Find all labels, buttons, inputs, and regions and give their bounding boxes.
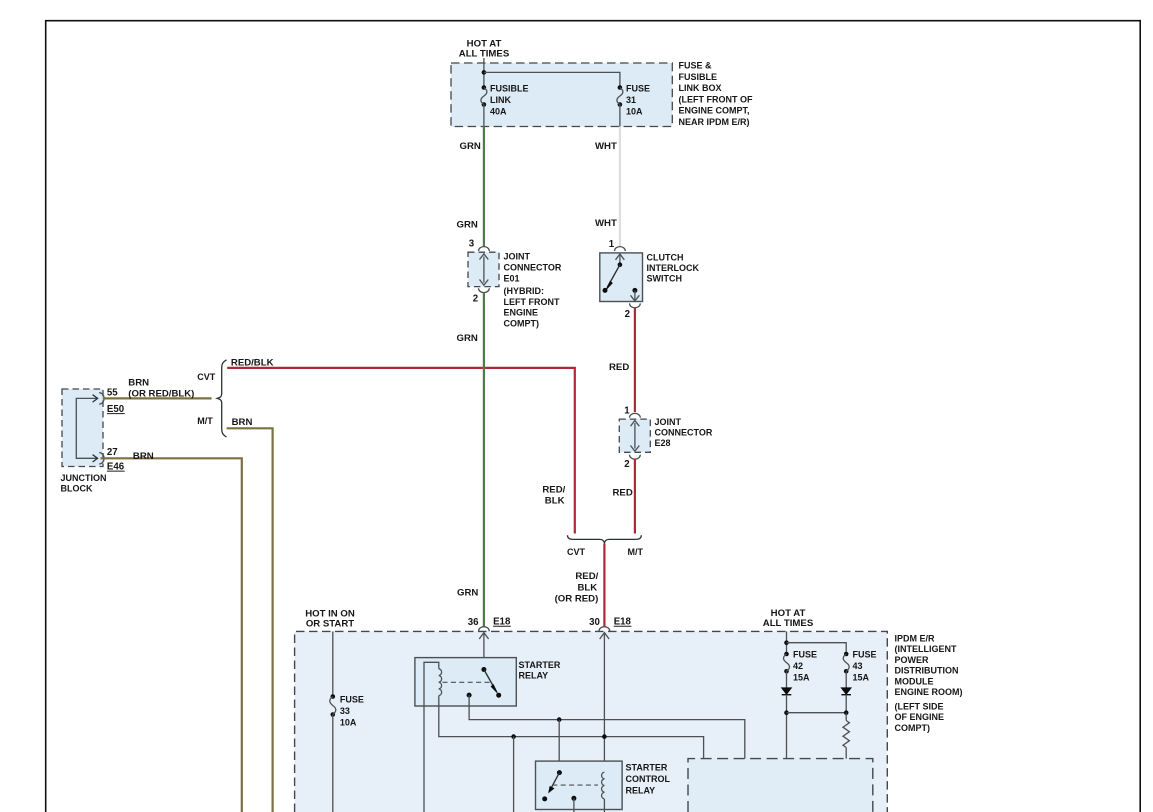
label BRN (OR RED/BLK) — [128, 378, 194, 400]
svg-text:RELAY: RELAY — [519, 670, 549, 680]
wire below fusible link — [483, 105, 485, 127]
svg-text:ENGINE ROOM): ENGINE ROOM) — [895, 687, 963, 697]
svg-text:ALL TIMES: ALL TIMES — [459, 49, 510, 60]
svg-text:CVT: CVT — [567, 547, 586, 557]
svg-text:(LEFT SIDE: (LEFT SIDE — [895, 702, 944, 712]
svg-text:(OR RED): (OR RED) — [555, 594, 599, 605]
wire jog to fuse 31 — [484, 72, 620, 87]
svg-text:JOINT: JOINT — [504, 252, 531, 262]
svg-text:(OR RED/BLK): (OR RED/BLK) — [128, 388, 194, 399]
svg-text:FUSE: FUSE — [626, 84, 650, 94]
svg-text:RED: RED — [609, 362, 629, 373]
wire feed from HOT AT ALL TIMES — [483, 58, 485, 88]
svg-text:DISTRIBUTION: DISTRIBUTION — [895, 666, 959, 676]
fuse 31 10A — [617, 84, 650, 117]
pin 30 connector E18 — [589, 617, 631, 632]
svg-text:FUSE &: FUSE & — [679, 61, 713, 71]
svg-text:CVT: CVT — [197, 372, 216, 382]
svg-text:CLUTCH: CLUTCH — [647, 253, 684, 263]
pin 36 arrow — [479, 633, 488, 670]
label RED/ BLK — [542, 485, 565, 507]
wire diode to junction — [845, 695, 847, 713]
svg-text:JUNCTION: JUNCTION — [61, 473, 107, 483]
svg-text:OF ENGINE: OF ENGINE — [895, 712, 945, 722]
svg-text:43: 43 — [853, 661, 863, 671]
svg-text:FUSE: FUSE — [340, 695, 364, 705]
svg-text:(HYBRID:: (HYBRID: — [504, 286, 545, 296]
svg-text:E01: E01 — [504, 273, 520, 283]
svg-text:33: 33 — [340, 706, 350, 716]
svg-text:GRN: GRN — [457, 588, 478, 599]
starter control relay — [536, 761, 671, 812]
svg-text:2: 2 — [625, 309, 630, 320]
wire HOT AT ALL TIMES right feed — [786, 631, 788, 654]
svg-text:10A: 10A — [340, 718, 357, 728]
svg-text:GRN: GRN — [457, 220, 478, 231]
svg-text:1: 1 — [624, 406, 630, 417]
wire junction to starter control relay — [558, 720, 560, 773]
svg-text:LINK BOX: LINK BOX — [679, 83, 722, 93]
starter relay — [415, 658, 704, 812]
svg-text:31: 31 — [626, 95, 636, 105]
svg-text:42: 42 — [793, 661, 803, 671]
svg-text:36: 36 — [468, 617, 479, 628]
junction dot — [784, 640, 789, 645]
svg-text:RED/: RED/ — [542, 485, 565, 496]
svg-text:40A: 40A — [490, 107, 507, 117]
svg-text:10A: 10A — [626, 107, 643, 117]
svg-text:ENGINE: ENGINE — [504, 308, 539, 318]
svg-text:RED: RED — [613, 488, 633, 499]
svg-text:FUSE: FUSE — [793, 650, 817, 660]
svg-text:BRN: BRN — [133, 451, 154, 462]
node HOT IN ON OR START — [305, 609, 355, 630]
svg-text:1: 1 — [609, 239, 615, 250]
svg-text:27: 27 — [107, 447, 118, 458]
diode (fuse 42 branch) — [782, 688, 792, 695]
wire BRN from pin 27 — [101, 458, 242, 812]
node HOT AT ALL TIMES — [459, 39, 510, 60]
svg-text:RELAY: RELAY — [626, 786, 656, 796]
wire below fuse 31 — [619, 105, 621, 127]
svg-text:WHT: WHT — [595, 141, 617, 152]
wire RED/BLK CVT branch — [227, 368, 575, 534]
svg-text:BRN: BRN — [128, 378, 149, 389]
pin 30 arrow / wire to starter control relay coil — [600, 633, 609, 772]
svg-text:COMPT): COMPT) — [504, 319, 540, 329]
svg-text:GRN: GRN — [457, 333, 478, 344]
node HOT AT ALL TIMES (right) — [763, 608, 814, 629]
svg-text:FUSIBLE: FUSIBLE — [679, 72, 718, 82]
svg-text:15A: 15A — [793, 673, 810, 683]
junction dot — [784, 710, 789, 715]
diode (fuse 43 branch) — [841, 688, 851, 695]
inner module box — [688, 759, 873, 812]
svg-text:STARTER: STARTER — [519, 660, 561, 670]
svg-text:LINK: LINK — [490, 95, 511, 105]
svg-text:BLK: BLK — [545, 496, 565, 507]
junction dot — [844, 710, 849, 715]
svg-text:LEFT FRONT: LEFT FRONT — [504, 297, 560, 307]
svg-text:MODULE: MODULE — [895, 676, 934, 686]
svg-text:FUSE: FUSE — [853, 650, 877, 660]
svg-text:CONNECTOR: CONNECTOR — [504, 263, 562, 273]
junction dot — [557, 717, 562, 722]
svg-text:CONNECTOR: CONNECTOR — [655, 427, 713, 437]
split brace CVT / M-T — [197, 360, 226, 437]
joint connector E28 — [619, 406, 713, 471]
svg-text:(LEFT FRONT OF: (LEFT FRONT OF — [679, 94, 753, 104]
svg-text:ALL TIMES: ALL TIMES — [763, 618, 814, 629]
joint connector E01 — [468, 239, 562, 329]
svg-text:ENGINE COMPT,: ENGINE COMPT, — [679, 106, 750, 116]
IPDM E/R box — [295, 631, 963, 812]
svg-text:2: 2 — [624, 459, 629, 470]
svg-text:SWITCH: SWITCH — [647, 274, 683, 284]
junction block — [61, 388, 125, 494]
svg-text:NEAR IPDM E/R): NEAR IPDM E/R) — [679, 117, 750, 127]
svg-text:BRN: BRN — [232, 417, 253, 428]
svg-text:JOINT: JOINT — [655, 417, 682, 427]
fuse & fusible link box — [451, 61, 753, 128]
wire diode to junction — [786, 695, 788, 759]
fuse 33 10A — [330, 631, 364, 812]
wire RED merge to pin 30 — [603, 544, 605, 627]
wire RED E28 to merge brace — [634, 459, 636, 534]
svg-text:RED/BLK: RED/BLK — [231, 358, 274, 369]
svg-text:2: 2 — [473, 294, 478, 305]
wire fuse 43 to diode — [845, 671, 847, 687]
svg-text:POWER: POWER — [895, 655, 930, 665]
svg-text:GRN: GRN — [460, 141, 481, 152]
svg-text:CONTROL: CONTROL — [626, 774, 671, 784]
junction dot — [511, 734, 516, 739]
wire GRN fuse box to E01 — [483, 127, 485, 247]
wire fuse 42 to diode — [786, 671, 788, 687]
resistor — [843, 713, 849, 759]
wire jog to fuse 43 — [787, 643, 847, 654]
wire BRN M/T branch — [227, 428, 273, 812]
wire GRN E01 to IPDM pin 36 — [483, 293, 485, 627]
pin 36 connector E18 — [468, 617, 511, 632]
wire RED clutch switch to E28 — [634, 308, 636, 412]
junction dot — [602, 734, 607, 739]
fuse 43 15A — [843, 650, 876, 683]
svg-text:INTERLOCK: INTERLOCK — [647, 263, 700, 273]
svg-text:BLK: BLK — [577, 583, 597, 594]
wire BRN from pin 55 — [103, 397, 212, 399]
svg-text:FUSIBLE: FUSIBLE — [490, 84, 529, 94]
svg-text:E28: E28 — [655, 438, 671, 448]
svg-text:RED/: RED/ — [575, 571, 598, 582]
wire WHT fuse box to clutch interlock switch — [619, 127, 621, 247]
svg-text:WHT: WHT — [595, 218, 617, 229]
junction dot — [482, 70, 487, 75]
fuse 42 15A — [784, 650, 818, 683]
merge brace CVT / M-T — [567, 535, 643, 557]
wire down from junction — [513, 737, 515, 812]
svg-text:BLOCK: BLOCK — [61, 483, 93, 493]
wire from starter relay contact — [469, 695, 745, 759]
svg-text:M/T: M/T — [628, 547, 644, 557]
svg-text:IPDM E/R: IPDM E/R — [895, 634, 936, 644]
svg-text:15A: 15A — [853, 673, 870, 683]
wire between junctions — [787, 712, 847, 714]
svg-text:COMPT): COMPT) — [895, 723, 931, 733]
svg-text:(INTELLIGENT: (INTELLIGENT — [895, 644, 957, 654]
svg-text:STARTER: STARTER — [626, 763, 668, 773]
svg-text:OR START: OR START — [306, 619, 354, 630]
fusible link 40A — [481, 84, 529, 117]
clutch interlock switch — [600, 239, 700, 320]
svg-text:55: 55 — [107, 388, 118, 399]
svg-text:30: 30 — [589, 617, 600, 628]
svg-text:M/T: M/T — [197, 416, 213, 426]
label RED/ BLK (OR RED) — [555, 571, 599, 605]
svg-text:3: 3 — [469, 239, 475, 250]
